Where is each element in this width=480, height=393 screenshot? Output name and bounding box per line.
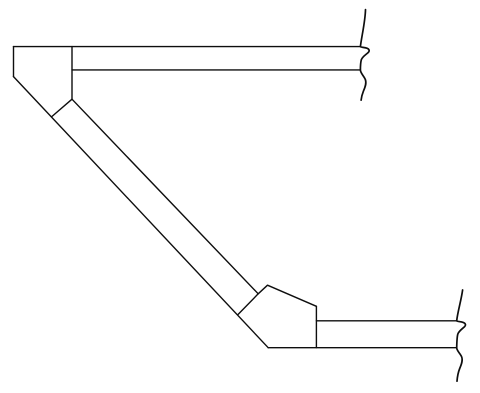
elbow E2 right edge: [315, 306, 317, 347]
break symbol B1: [360, 10, 369, 101]
elbow E2 joint line: [238, 294, 258, 315]
break symbol B2: [457, 290, 466, 381]
pipe P2 lower line: [14, 77, 269, 348]
pipe P1 bottom line: [72, 69, 360, 71]
pipe P3 top line: [316, 320, 457, 322]
elbow E1 right edge: [71, 47, 73, 100]
pipe P1 top line: [14, 46, 361, 48]
elbow E1 left edge: [13, 47, 15, 77]
elbow E2 top edge: [258, 285, 316, 306]
pipe P3 bottom line: [268, 347, 457, 349]
pipe P2 upper line: [72, 99, 258, 294]
elbow E1 joint line: [52, 99, 72, 116]
